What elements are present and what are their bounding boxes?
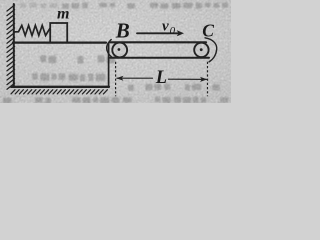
pulley B bbox=[112, 43, 127, 58]
dashed extension line B bbox=[115, 62, 117, 97]
belt right end arc bbox=[205, 38, 217, 62]
pulley C axle bbox=[200, 48, 203, 51]
wall bbox=[13, 4, 15, 87]
block m bbox=[50, 23, 67, 43]
dimension line L left with arrowhead bbox=[116, 76, 152, 81]
pulley B axle bbox=[118, 48, 121, 51]
ground hatching bbox=[11, 90, 107, 94]
table bottom bbox=[11, 86, 109, 88]
belt top bbox=[110, 41, 206, 43]
belt left end arc bbox=[107, 40, 112, 57]
velocity arrow v0 bbox=[137, 30, 184, 36]
bleed-through text (decorative) bbox=[3, 3, 229, 105]
dimension line L right with arrowhead bbox=[169, 77, 208, 82]
spring bbox=[15, 25, 50, 35]
table top bbox=[13, 41, 106, 43]
belt bottom bbox=[110, 57, 209, 59]
dashed extension line C bbox=[207, 62, 209, 97]
wall hatching bbox=[7, 5, 15, 89]
pulley C bbox=[194, 43, 208, 57]
table right edge bbox=[108, 44, 110, 87]
